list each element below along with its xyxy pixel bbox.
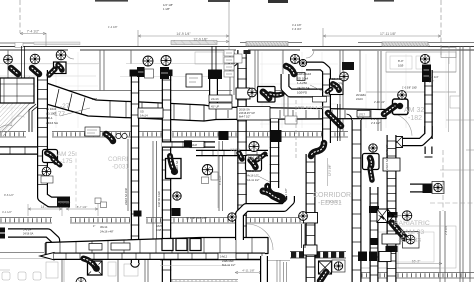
svg-text:14'-9 1/4": 14'-9 1/4" xyxy=(176,32,191,36)
svg-text:4'-11 1/8": 4'-11 1/8" xyxy=(242,268,254,272)
svg-text:ED-5XA 1-70: ED-5XA 1-70 xyxy=(298,105,325,110)
svg-text:2'-6 1/2": 2'-6 1/2" xyxy=(371,121,381,125)
svg-text:2'-1 3/8": 2'-1 3/8" xyxy=(60,201,70,205)
svg-text:24x16: 24x16 xyxy=(356,98,363,101)
svg-text:45° UP: 45° UP xyxy=(211,105,220,109)
svg-text:-175: -175 xyxy=(60,158,73,165)
svg-text:26/14ØA: 26/14ØA xyxy=(356,94,366,97)
svg-text:24/16 SA: 24/16 SA xyxy=(23,232,34,235)
svg-text:24x16: 24x16 xyxy=(332,86,340,90)
svg-text:24Ø SA: 24Ø SA xyxy=(246,169,256,173)
svg-text:8x4-11 1/2": 8x4-11 1/2" xyxy=(222,263,235,267)
svg-text:24x16 1/2": 24x16 1/2" xyxy=(246,173,259,177)
svg-text:-177: -177 xyxy=(52,111,65,118)
svg-text:10Ø: 10Ø xyxy=(92,97,97,101)
svg-text:AM 32: AM 32 xyxy=(404,107,424,114)
svg-text:24Øx16Ø: 24Øx16Ø xyxy=(222,259,234,263)
svg-text:10Ø: 10Ø xyxy=(156,228,161,232)
svg-text:9'-6 1/2": 9'-6 1/2" xyxy=(4,193,14,197)
svg-text:1'-6": 1'-6" xyxy=(429,79,434,83)
svg-text:BARIATRIC: BARIATRIC xyxy=(394,220,430,227)
svg-text:24x16 SA: 24x16 SA xyxy=(175,160,179,172)
svg-text:SD 10x4: SD 10x4 xyxy=(297,77,308,81)
svg-text:-D031: -D031 xyxy=(112,164,129,171)
svg-text:-182: -182 xyxy=(408,115,422,122)
svg-text:10x4 SD: 10x4 SD xyxy=(332,77,343,81)
svg-text:XAM 33: XAM 33 xyxy=(400,229,424,236)
svg-text:14x12: 14x12 xyxy=(220,255,228,259)
svg-text:14x8: 14x8 xyxy=(192,144,198,147)
svg-text:24x16 SA 10Ø FD 48": 24x16 SA 10Ø FD 48" xyxy=(385,144,389,170)
svg-text:36x14: 36x14 xyxy=(100,225,108,229)
svg-text:17/17: 17/17 xyxy=(359,113,366,117)
svg-text:24x16 SA: 24x16 SA xyxy=(297,86,310,90)
svg-text:8'-0": 8'-0" xyxy=(398,59,404,63)
svg-text:2'-8 1/4": 2'-8 1/4" xyxy=(444,225,448,235)
svg-text:12'-2 1/8": 12'-2 1/8" xyxy=(328,165,332,176)
svg-text:14x14: 14x14 xyxy=(140,114,148,118)
svg-text:1'-0 5/8" 10Ø: 1'-0 5/8" 10Ø xyxy=(402,87,417,90)
svg-text:4'-2 1/8": 4'-2 1/8" xyxy=(292,23,302,27)
svg-text:4'-1 1/2": 4'-1 1/2" xyxy=(2,210,12,214)
svg-text:2'-2 1/4": 2'-2 1/4" xyxy=(371,117,381,121)
svg-text:CORRIDOR: CORRIDOR xyxy=(313,192,351,199)
svg-text:250 CFM: 250 CFM xyxy=(332,81,344,85)
svg-text:3'-0 1/4": 3'-0 1/4" xyxy=(23,229,32,232)
svg-text:17'-2 1/8": 17'-2 1/8" xyxy=(284,188,288,200)
svg-text:1'-6 3/4": 1'-6 3/4" xyxy=(292,27,302,31)
svg-text:1'-4 1/8": 1'-4 1/8" xyxy=(108,25,118,29)
svg-text:24x16: 24x16 xyxy=(211,97,219,101)
svg-text:20/16 SA: 20/16 SA xyxy=(239,108,250,112)
svg-text:(2) 10Ø 14x8 +48": (2) 10Ø 14x8 +48" xyxy=(186,216,207,220)
svg-text:24x16 +48": 24x16 +48" xyxy=(100,229,114,233)
svg-text:8x4-11 1/2": 8x4-11 1/2" xyxy=(246,178,259,182)
svg-text:1°: 1° xyxy=(93,225,95,228)
svg-text:1 1/8": 1 1/8" xyxy=(163,7,170,11)
svg-text:-27: -27 xyxy=(60,103,70,110)
svg-text:4'-2 1/4": 4'-2 1/4" xyxy=(429,75,439,79)
svg-text:10Ø FD: 10Ø FD xyxy=(297,90,307,94)
svg-text:8x4-7 1/2": 8x4-7 1/2" xyxy=(239,116,250,119)
svg-text:24/16 SA: 24/16 SA xyxy=(46,121,58,125)
svg-text:7'-4 1/2": 7'-4 1/2" xyxy=(27,29,40,33)
svg-text:AM 31: AM 31 xyxy=(247,156,262,162)
svg-text:8'-7 1/2": 8'-7 1/2" xyxy=(77,205,88,209)
svg-text:AM 25: AM 25 xyxy=(57,151,75,158)
svg-text:10Ø SD 14x8: 10Ø SD 14x8 xyxy=(157,191,161,207)
svg-text:10Ø 24x16: 10Ø 24x16 xyxy=(297,72,312,76)
svg-text:4'-8 1/2": 4'-8 1/2" xyxy=(218,175,222,185)
svg-text:17/16: 17/16 xyxy=(230,147,241,152)
svg-text:EXAM 1: EXAM 1 xyxy=(326,199,342,204)
svg-text:18x5: 18x5 xyxy=(156,224,162,228)
svg-text:24x16 SA 10Ø: 24x16 SA 10Ø xyxy=(124,188,128,205)
svg-text:CORRI: CORRI xyxy=(108,156,128,163)
svg-text:2'-10 1/2": 2'-10 1/2" xyxy=(374,100,385,104)
svg-text:10Ø: 10Ø xyxy=(398,64,404,68)
svg-text:1/4" 1/8": 1/4" 1/8" xyxy=(163,3,173,7)
svg-text:17'-11 1/8": 17'-11 1/8" xyxy=(380,32,397,36)
svg-text:-ED183: -ED183 xyxy=(398,237,421,244)
svg-text:1-A 250: 1-A 250 xyxy=(297,81,307,85)
svg-text:16'-2": 16'-2" xyxy=(412,259,421,263)
